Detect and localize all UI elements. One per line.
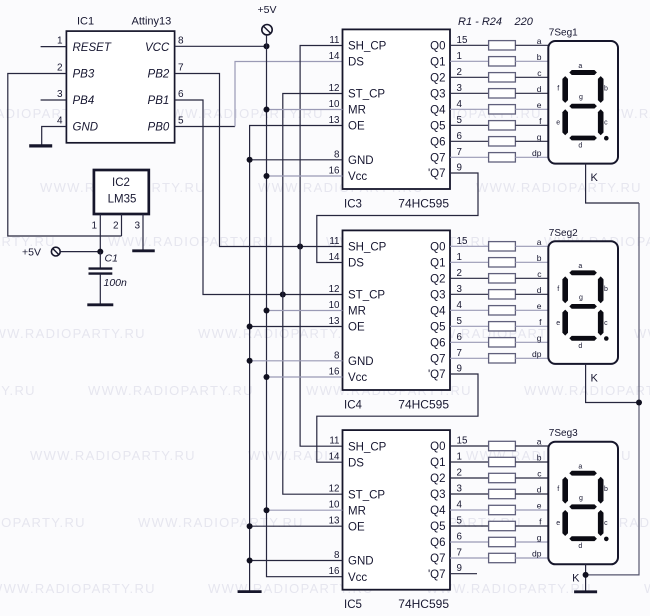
svg-text:d: d: [537, 485, 542, 495]
resistor R19: [489, 473, 516, 482]
wire IC3 Q2 to resistor R3: [450, 76, 489, 78]
7-segment display 7Seg3: [548, 442, 618, 565]
resistor R24: [489, 553, 516, 562]
wire IC1 pin6 PB1 to ST_CP bus (latch): [175, 100, 343, 295]
+5V terminal at LM35: [51, 247, 60, 256]
7Seg2 segment g: [569, 304, 597, 309]
wire IC4 Q6 to resistor R15: [450, 341, 489, 343]
ground bus vertical: [250, 126, 343, 592]
svg-text:MR: MR: [348, 505, 366, 517]
svg-text:WWW.RADIOPARTY.RU: WWW.RADIOPARTY.RU: [644, 581, 650, 596]
svg-text:Q7: Q7: [430, 553, 445, 565]
wire IC1 pin7 PB2 to SH_CP bus (clock): [175, 74, 343, 247]
svg-text:16: 16: [329, 166, 340, 177]
wire IC3 Q3 to resistor R4: [450, 92, 489, 94]
svg-text:b: b: [604, 286, 608, 293]
svg-text:11: 11: [329, 236, 339, 247]
resistor R8: [489, 153, 516, 162]
7Seg3 segment a: [569, 471, 597, 476]
svg-text:g: g: [537, 533, 542, 543]
resistor R11: [489, 274, 516, 283]
svg-text:8: 8: [334, 350, 340, 361]
svg-text:g: g: [579, 94, 583, 101]
svg-text:10: 10: [329, 300, 340, 311]
resistor R22: [489, 521, 516, 530]
7Seg2 segment a: [569, 270, 597, 275]
resistor R12: [489, 290, 516, 299]
svg-text:K: K: [591, 172, 599, 184]
svg-text:WWW.RADIOPARTY.RU: WWW.RADIOPARTY.RU: [88, 383, 254, 398]
svg-text:Q3: Q3: [430, 290, 445, 302]
wire cascade IC3 Q7S to IC4 DS: [317, 173, 478, 263]
svg-text:a: a: [537, 437, 542, 447]
7Seg3 segment d: [569, 536, 597, 541]
svg-text:Q0: Q0: [430, 441, 445, 453]
wire IC4 Q2 to resistor R11: [450, 277, 489, 279]
svg-text:PB4: PB4: [73, 95, 95, 107]
shift register IC5 74HC595: [343, 430, 451, 590]
svg-text:7Seg1: 7Seg1: [549, 28, 578, 39]
svg-text:Q6: Q6: [430, 537, 445, 549]
wire IC4 Q3 to resistor R12: [450, 293, 489, 295]
svg-text:220: 220: [514, 16, 534, 28]
7Seg2 decimal point dp: [604, 336, 609, 341]
svg-text:b: b: [604, 86, 608, 93]
wire IC4 Q1 to resistor R10: [450, 261, 489, 263]
svg-text:Q3: Q3: [430, 89, 445, 101]
watermark (decorative): [0, 106, 650, 596]
junction LM35 pin1 / +5V / C1: [97, 249, 103, 255]
svg-text:C1: C1: [105, 253, 118, 265]
svg-text:1: 1: [57, 36, 63, 47]
svg-text:8: 8: [334, 550, 340, 561]
svg-text:WWW.RADIOPARTY.RU: WWW.RADIOPARTY.RU: [0, 383, 36, 398]
wire 7Seg2 K: [586, 364, 639, 403]
svg-text:LM35: LM35: [108, 194, 137, 206]
wire IC5 OE to ground bus: [250, 525, 343, 527]
svg-text:Q2: Q2: [430, 73, 445, 85]
7Seg2 segment c: [598, 310, 604, 336]
wire resistor R23 to 7Seg3 segment g: [515, 541, 548, 543]
svg-text:13: 13: [329, 115, 340, 126]
wire resistor R21 to 7Seg3 segment e: [515, 509, 548, 511]
svg-text:VCC: VCC: [145, 42, 170, 54]
svg-text:b: b: [604, 486, 608, 493]
svg-text:WWW.RADIOPARTY.RU: WWW.RADIOPARTY.RU: [30, 448, 196, 463]
svg-text:e: e: [537, 501, 542, 511]
svg-text:1: 1: [457, 252, 462, 263]
svg-text:MR: MR: [348, 306, 366, 318]
wire resistor R12 to 7Seg2 segment d: [515, 293, 548, 295]
junction GND IC4: [247, 358, 253, 364]
svg-text:g: g: [579, 295, 583, 302]
svg-text:Q5: Q5: [430, 521, 445, 533]
7Seg1 segment a: [569, 70, 597, 75]
svg-text:3: 3: [457, 284, 463, 295]
IC1 pin name labels: [73, 42, 170, 134]
svg-text:d: d: [537, 84, 542, 94]
+5V terminal top: [262, 25, 272, 35]
wire LM35 pin2 down: [121, 214, 123, 236]
svg-text:ST_CP: ST_CP: [348, 489, 385, 501]
7Seg1 segment e: [562, 109, 568, 135]
svg-text:OE: OE: [348, 121, 365, 133]
svg-text:Q7: Q7: [430, 354, 445, 366]
svg-text:dp: dp: [532, 349, 542, 359]
svg-text:R1 - R24: R1 - R24: [458, 16, 502, 28]
svg-text:2: 2: [457, 268, 462, 279]
svg-text:PB2: PB2: [148, 69, 170, 81]
7Seg3 segment b: [598, 477, 604, 504]
wire resistor R8 to 7Seg1 segment dp: [515, 156, 548, 158]
svg-text:IC3: IC3: [344, 199, 362, 211]
svg-text:2: 2: [57, 63, 63, 74]
wire resistor R5 to 7Seg1 segment e: [515, 108, 548, 110]
wire resistor R20 to 7Seg3 segment d: [515, 493, 548, 495]
svg-text:9: 9: [457, 563, 462, 574]
wire IC3 MR to +5V bus: [267, 109, 343, 111]
wire IC5 Q1 to resistor R18: [450, 461, 489, 463]
wire IC4 Q7 to resistor R16: [450, 357, 489, 359]
svg-text:7Seg2: 7Seg2: [549, 228, 578, 239]
wire IC5 Q7S stub: [450, 573, 477, 575]
ground symbol below 7Seg3: [574, 590, 597, 593]
svg-text:13: 13: [329, 516, 340, 527]
svg-text:a: a: [537, 36, 542, 46]
svg-text:c: c: [604, 520, 608, 527]
svg-text:SH_CP: SH_CP: [348, 441, 387, 453]
wire IC1 pin2 PB3 to LM35 output pin 2: [8, 74, 122, 237]
svg-text:Q0: Q0: [430, 41, 445, 53]
svg-text:74HC595: 74HC595: [398, 398, 449, 412]
wire IC5 Q2 to resistor R19: [450, 477, 489, 479]
svg-text:e: e: [556, 120, 560, 127]
svg-text:DS: DS: [348, 57, 364, 69]
resistor R23: [489, 537, 516, 546]
wire IC1 pin8 VCC to +5V bus: [175, 45, 267, 47]
wire LM35 pin1 to +5V node: [99, 214, 101, 252]
svg-text:14: 14: [329, 51, 340, 62]
svg-text:PB3: PB3: [73, 69, 95, 81]
7Seg2 segment d: [569, 336, 597, 341]
junction 7Seg3 K / bus: [583, 572, 589, 578]
wire IC4 MR to +5V bus: [267, 310, 343, 312]
resistor R6: [489, 121, 516, 130]
wire IC3 Q1 to resistor R2: [450, 60, 489, 62]
resistor R15: [489, 338, 516, 347]
svg-text:e: e: [556, 320, 560, 327]
svg-text:GND: GND: [348, 155, 374, 167]
7Seg1 decimal point dp: [604, 136, 609, 141]
svg-text:Q6: Q6: [430, 137, 445, 149]
svg-text:DS: DS: [348, 457, 364, 469]
svg-text:WWW.RADIOPARTY.RU: WWW.RADIOPARTY.RU: [0, 515, 86, 530]
svg-text:15: 15: [457, 436, 468, 447]
svg-text:b: b: [537, 453, 542, 463]
svg-text:g: g: [537, 132, 542, 142]
svg-text:2: 2: [457, 67, 462, 78]
resistor R5: [489, 105, 516, 114]
ground symbol at LM35 pin3: [132, 249, 155, 252]
svg-text:6: 6: [457, 332, 463, 343]
resistor R18: [489, 457, 516, 466]
svg-text:g: g: [579, 495, 583, 502]
svg-text:Vcc: Vcc: [348, 372, 367, 384]
svg-text:2: 2: [113, 221, 119, 232]
svg-text:6: 6: [178, 89, 184, 100]
junction OE IC5: [247, 523, 253, 529]
wire IC3 Q7 to resistor R8: [450, 156, 489, 158]
svg-text:4: 4: [57, 116, 63, 127]
svg-text:IC5: IC5: [344, 599, 362, 611]
svg-text:ST_CP: ST_CP: [348, 89, 385, 101]
wire IC1 pin1 RESET stub: [41, 46, 67, 48]
wire IC3 Q4 to resistor R5: [450, 108, 489, 110]
svg-text:Q4: Q4: [430, 306, 446, 318]
svg-text:'Q7: 'Q7: [428, 168, 446, 180]
wire IC5 Q3 to resistor R20: [450, 493, 489, 495]
svg-text:9: 9: [457, 163, 462, 174]
junction MR IC5 +5V: [264, 507, 270, 513]
wire IC4 GND to ground bus: [250, 360, 343, 362]
svg-text:1: 1: [91, 221, 97, 232]
wire 7Seg3 K to ground: [585, 564, 587, 591]
svg-text:e: e: [556, 520, 560, 527]
junction 7Seg2 K / bus: [636, 400, 642, 406]
svg-text:6: 6: [457, 131, 463, 142]
wire IC5 Q7 to resistor R24: [450, 557, 489, 559]
svg-text:Attiny13: Attiny13: [132, 16, 172, 28]
junction GND IC3: [247, 157, 253, 163]
7Seg1 segment c: [598, 109, 604, 135]
svg-text:Q5: Q5: [430, 322, 445, 334]
svg-text:WWW.RADIOPARTY.RU: WWW.RADIOPARTY.RU: [138, 515, 304, 530]
wire IC3 Q6 to resistor R7: [450, 140, 489, 142]
wire resistor R11 to 7Seg2 segment c: [515, 277, 548, 279]
svg-text:WWW.RADIOPARTY.RU: WWW.RADIOPARTY.RU: [476, 180, 642, 195]
wire resistor R4 to 7Seg1 segment d: [515, 92, 548, 94]
wire +5V bus vertical: [267, 35, 343, 577]
svg-text:MR: MR: [348, 105, 366, 117]
svg-text:c: c: [604, 120, 608, 127]
junction ST_CP chain at IC4: [280, 292, 286, 298]
svg-text:1: 1: [457, 51, 462, 62]
wire right K bus vertical: [586, 203, 639, 575]
svg-text:f: f: [557, 486, 559, 493]
junction OE IC4: [247, 324, 253, 330]
svg-text:Q1: Q1: [430, 457, 445, 469]
wire resistor R2 to 7Seg1 segment b: [515, 60, 548, 62]
junction GND IC5: [247, 558, 253, 564]
svg-text:Q2: Q2: [430, 274, 445, 286]
wire resistor R9 to 7Seg2 segment a: [515, 245, 548, 247]
wire IC3 Q5 to resistor R6: [450, 124, 489, 126]
svg-text:3: 3: [57, 89, 63, 100]
7-segment display 7Seg2: [548, 241, 618, 364]
wire PB0 to DS of IC3 (serial data): [235, 62, 343, 127]
shift register IC4 74HC595: [343, 230, 451, 390]
svg-text:f: f: [557, 86, 559, 93]
7Seg3 segment f: [562, 477, 568, 504]
wire resistor R19 to 7Seg3 segment c: [515, 477, 548, 479]
7Seg2 segment f: [562, 276, 568, 303]
svg-text:14: 14: [329, 452, 340, 463]
7Seg1 segment b: [598, 76, 604, 103]
wire resistor R22 to 7Seg3 segment f: [515, 525, 548, 527]
svg-text:GND: GND: [73, 122, 99, 134]
temperature sensor IC2 LM35: [94, 170, 149, 214]
svg-text:3: 3: [457, 484, 463, 495]
svg-text:IC1: IC1: [77, 16, 94, 28]
svg-text:PB1: PB1: [148, 95, 170, 107]
resistor R4: [489, 89, 516, 98]
wire LM35 pin3 to ground: [142, 214, 144, 251]
svg-text:Q5: Q5: [430, 121, 445, 133]
svg-text:2: 2: [457, 468, 462, 479]
svg-text:PB0: PB0: [148, 122, 170, 134]
svg-text:f: f: [557, 286, 559, 293]
svg-text:c: c: [604, 320, 608, 327]
svg-text:WWW.RADIOPARTY.RU: WWW.RADIOPARTY.RU: [198, 326, 364, 341]
svg-text:1: 1: [457, 452, 462, 463]
wire IC5 Q6 to resistor R23: [450, 541, 489, 543]
svg-text:15: 15: [457, 236, 468, 247]
svg-text:100n: 100n: [104, 277, 128, 289]
7Seg1 segment f: [562, 76, 568, 103]
wire IC4 OE to ground bus: [250, 326, 343, 328]
wire IC4 Q0 to resistor R9: [450, 245, 489, 247]
wire cascade IC4 Q7S to IC5 DS: [317, 374, 478, 462]
svg-text:14: 14: [329, 252, 340, 263]
7-segment display 7Seg1: [548, 41, 618, 164]
svg-text:11: 11: [329, 35, 339, 46]
svg-text:74HC595: 74HC595: [398, 597, 449, 611]
svg-text:WWW.RADIOPARTY.RU: WWW.RADIOPARTY.RU: [0, 326, 146, 341]
wire resistor R10 to 7Seg2 segment b: [515, 261, 548, 263]
svg-text:16: 16: [329, 367, 340, 378]
wire IC3 Q0 to resistor R1: [450, 44, 489, 46]
SH_CP chain vertical: [300, 46, 342, 447]
resistor R16: [489, 354, 516, 363]
wire IC4 Q5 to resistor R14: [450, 325, 489, 327]
svg-text:4: 4: [457, 300, 463, 311]
wire IC1 pin5 PB0 horizontal: [175, 126, 235, 128]
resistor R2: [489, 57, 516, 66]
svg-text:K: K: [591, 373, 599, 385]
svg-text:Q4: Q4: [430, 505, 446, 517]
svg-text:a: a: [578, 63, 582, 70]
wire resistor R15 to 7Seg2 segment g: [515, 341, 548, 343]
svg-text:Vcc: Vcc: [348, 171, 367, 183]
svg-text:Q2: Q2: [430, 473, 445, 485]
svg-text:5: 5: [457, 516, 463, 527]
resistor R10: [489, 258, 516, 267]
7Seg1 segment g: [569, 104, 597, 109]
7Seg1 segment d: [569, 136, 597, 141]
svg-text:Vcc: Vcc: [348, 572, 367, 584]
svg-text:Q0: Q0: [430, 242, 445, 254]
svg-text:11: 11: [329, 436, 339, 447]
svg-text:OE: OE: [348, 322, 365, 334]
resistor R9: [489, 242, 516, 251]
svg-text:Q7: Q7: [430, 153, 445, 165]
junction MR IC3 +5V: [264, 107, 270, 113]
shift register IC3 74HC595: [343, 29, 451, 189]
svg-text:5: 5: [457, 115, 463, 126]
svg-text:+5V: +5V: [258, 4, 277, 16]
svg-text:'Q7: 'Q7: [428, 369, 446, 381]
svg-text:ST_CP: ST_CP: [348, 290, 385, 302]
microcontroller IC1 Attiny13: [66, 31, 174, 143]
7Seg3 segment g: [569, 504, 597, 509]
ground symbol below C1: [87, 303, 113, 306]
svg-text:12: 12: [329, 484, 340, 495]
junction MR IC4 +5V: [264, 308, 270, 314]
resistor R7: [489, 137, 516, 146]
svg-text:a: a: [537, 237, 542, 247]
ground symbol at bottom of ground bus: [238, 590, 262, 593]
svg-text:SH_CP: SH_CP: [348, 41, 387, 53]
svg-text:IC2: IC2: [112, 177, 130, 189]
svg-text:'Q7: 'Q7: [428, 569, 446, 581]
svg-text:GND: GND: [348, 356, 374, 368]
svg-text:d: d: [578, 143, 582, 150]
resistor R14: [489, 322, 516, 331]
wire resistor R1 to 7Seg1 segment a: [515, 44, 548, 46]
svg-text:GND: GND: [348, 556, 374, 568]
wire resistor R3 to 7Seg1 segment c: [515, 76, 548, 78]
wire resistor R24 to 7Seg3 segment dp: [515, 557, 548, 559]
svg-text:b: b: [537, 253, 542, 263]
wire resistor R13 to 7Seg2 segment e: [515, 309, 548, 311]
wire IC3 GND to ground bus: [250, 159, 343, 161]
resistor R1: [489, 41, 516, 50]
resistor R17: [489, 441, 516, 450]
resistor R13: [489, 306, 516, 315]
svg-text:12: 12: [329, 83, 340, 94]
svg-text:a: a: [578, 464, 582, 471]
wire IC3 Vcc to +5V bus: [267, 175, 343, 177]
svg-text:Q1: Q1: [430, 57, 445, 69]
capacitor C1: [99, 252, 101, 269]
svg-text:K: K: [572, 573, 580, 585]
svg-text:b: b: [537, 52, 542, 62]
svg-text:10: 10: [329, 500, 340, 511]
svg-text:+5V: +5V: [22, 247, 41, 259]
junction SH_CP chain at IC4: [297, 244, 303, 250]
svg-text:4: 4: [457, 500, 463, 511]
7Seg3 segment c: [598, 510, 604, 536]
7Seg2 segment b: [598, 276, 604, 303]
svg-text:8: 8: [178, 36, 184, 47]
svg-text:a: a: [578, 263, 582, 270]
svg-text:15: 15: [457, 35, 468, 46]
wire IC5 Q5 to resistor R22: [450, 525, 489, 527]
svg-text:Q4: Q4: [430, 105, 446, 117]
svg-text:8: 8: [334, 149, 340, 160]
svg-text:e: e: [537, 301, 542, 311]
svg-text:5: 5: [178, 116, 184, 127]
wire IC5 Q4 to resistor R21: [450, 509, 489, 511]
wire IC4 Vcc to +5V bus: [267, 376, 343, 378]
svg-text:5: 5: [457, 316, 463, 327]
svg-text:SH_CP: SH_CP: [348, 242, 387, 254]
junction VCC IC1 / +5V bus: [264, 43, 270, 49]
svg-text:WWW.RADIOPARTY.RU: WWW.RADIOPARTY.RU: [524, 383, 650, 398]
wire IC5 GND to ground bus: [250, 560, 343, 562]
svg-text:d: d: [537, 285, 542, 295]
svg-text:3: 3: [134, 221, 140, 232]
